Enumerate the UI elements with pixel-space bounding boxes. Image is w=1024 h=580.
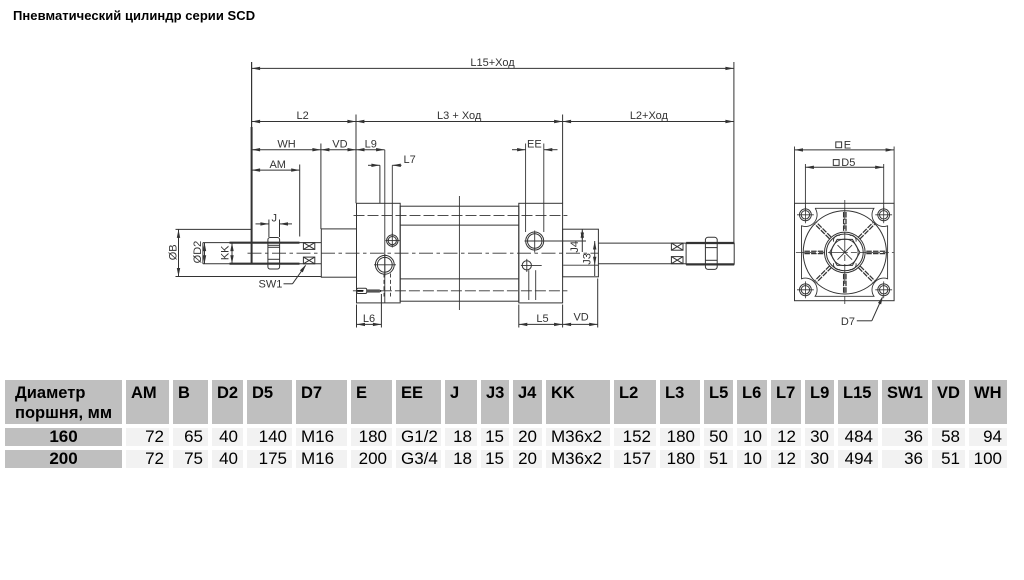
extension line left cap face: [355, 115, 357, 204]
dimension ØD2: [192, 241, 206, 264]
extension line right (right rod end datum): [733, 62, 735, 243]
svg-text:J4: J4: [569, 241, 581, 253]
J3 extension line: [563, 264, 598, 266]
dimension L15+Ход: [252, 57, 734, 70]
svg-text:ØB: ØB: [167, 244, 179, 260]
extension line left (rod end face datum): [251, 62, 253, 127]
label SW1 with leader: [259, 263, 308, 290]
dimension EE: [512, 138, 558, 151]
svg-text:J3: J3: [581, 253, 593, 265]
port passage line left cap: [384, 150, 386, 303]
svg-text:D5: D5: [841, 157, 855, 169]
rod nut left: [268, 238, 280, 270]
piston rod left: [203, 242, 321, 244]
tie rod nut top-right: [875, 206, 892, 223]
dimension VD left: [321, 138, 356, 151]
dimension KK: [220, 243, 234, 264]
label D7 with leader: [841, 295, 885, 328]
cap left: [357, 203, 401, 303]
dimension L3 + Ход: [356, 110, 563, 123]
front view square cap outline: [795, 203, 895, 300]
svg-text:SW1: SW1: [259, 279, 283, 291]
svg-text:L2: L2: [296, 110, 308, 122]
cushion passage right cap: [528, 270, 530, 300]
svg-text:L5: L5: [536, 313, 548, 325]
dimension □D5: [805, 157, 883, 210]
tie rod nut bottom-left: [797, 281, 814, 298]
hidden port passage below: [383, 274, 385, 297]
front view inner contour with corner scallops: [802, 208, 888, 296]
center circles: [825, 232, 866, 273]
svg-text:AM: AM: [269, 159, 286, 171]
rod nut right: [705, 237, 717, 269]
svg-text:KK: KK: [220, 245, 232, 260]
dimension J3: [581, 241, 596, 276]
tie rod nut top-left: [797, 206, 814, 223]
cushion screw circle left cap: [387, 235, 398, 246]
svg-text:L3 + Ход: L3 + Ход: [437, 110, 482, 122]
dimension L5: [519, 305, 563, 328]
svg-text:J: J: [271, 213, 277, 225]
extension line WH/VD boundary: [320, 144, 322, 230]
dimension L2+Ход: [563, 110, 734, 123]
square corner arcs behind hexagon: [833, 235, 856, 269]
extension line right cap face: [562, 115, 564, 204]
dimension J4: [569, 229, 584, 252]
svg-text:L7: L7: [404, 154, 416, 166]
rod hexagon: [830, 239, 860, 265]
dimension VD bottom: [563, 279, 598, 328]
cushion needle valve left: [357, 288, 382, 293]
front view tube circle: [803, 211, 886, 294]
main centerlines front view: [796, 251, 894, 253]
wrench flats SW1 left lower: [303, 257, 314, 264]
EE hole walls right cap: [525, 144, 527, 233]
cap right: [519, 203, 563, 303]
wrench flats SW1 left upper: [303, 243, 314, 250]
boss right: [563, 229, 599, 277]
tube mid centerline: [458, 196, 460, 310]
dimension J (rod nut width): [256, 213, 293, 237]
data table: [1, 376, 1011, 473]
dimension L9: [356, 138, 385, 151]
dimension AM: [252, 159, 300, 172]
svg-text:L15+Ход: L15+Ход: [470, 57, 515, 69]
spokes 8 directions: [787, 195, 903, 311]
tie rod top: [354, 214, 568, 216]
wrench flats right upper: [671, 243, 683, 250]
port circle left cap: [375, 255, 394, 274]
piston rod right: [598, 242, 686, 244]
svg-text:L6: L6: [363, 313, 375, 325]
svg-text:E: E: [844, 140, 851, 152]
dimension ØB: [167, 229, 321, 276]
cushion screw circle right cap: [522, 261, 531, 270]
svg-text:VD: VD: [573, 311, 588, 323]
boss left: [321, 229, 356, 277]
rod thread left (thick): [230, 242, 300, 244]
dimension L7: [368, 154, 416, 203]
cylinder tube: [400, 206, 519, 301]
tie rod bottom: [353, 290, 568, 292]
svg-text:D7: D7: [841, 316, 855, 328]
main axis centerline: [248, 252, 599, 254]
rod thread right (thick): [686, 242, 734, 244]
svg-text:WH: WH: [277, 138, 295, 150]
center cross X: [838, 245, 853, 260]
svg-text:VD: VD: [332, 138, 347, 150]
dimension □E: [795, 140, 895, 204]
svg-text:L9: L9: [365, 138, 377, 150]
dimension L2: [252, 110, 356, 123]
svg-text:EE: EE: [527, 138, 542, 150]
cushion passage line left cap: [391, 165, 393, 235]
svg-text:L2+Ход: L2+Ход: [630, 110, 669, 122]
EE port circle right cap: [526, 232, 544, 250]
dimension WH: [252, 138, 321, 151]
dimension L6: [357, 294, 382, 328]
tie rod nut bottom-right: [875, 281, 892, 298]
wrench flats right lower: [671, 257, 683, 264]
extension line AM right: [299, 165, 301, 237]
